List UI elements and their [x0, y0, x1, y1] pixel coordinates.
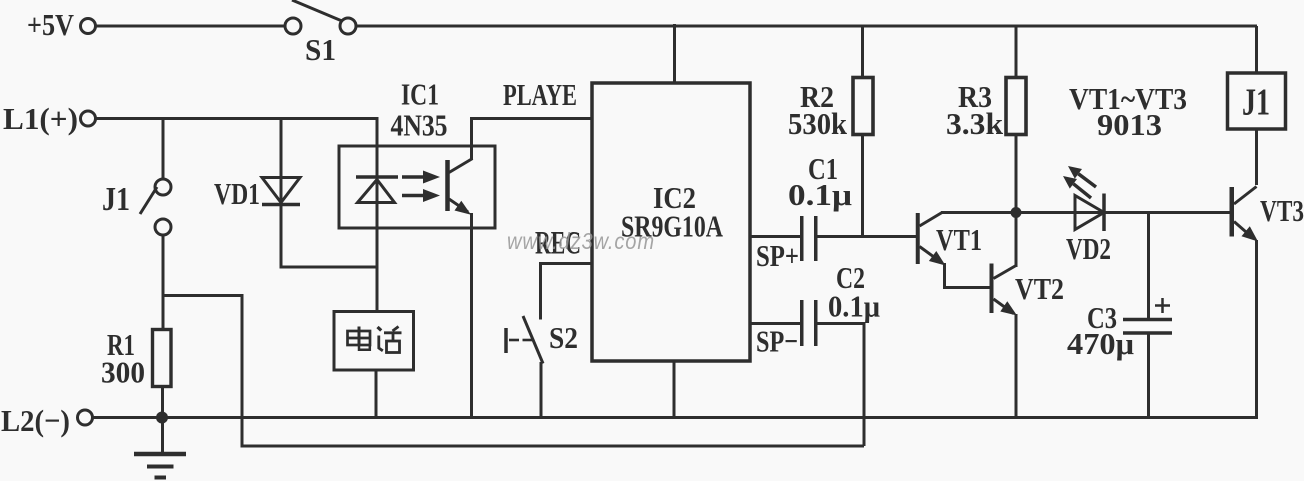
svg-text:S1: S1 — [305, 32, 336, 67]
wire rail to R3 — [1015, 26, 1018, 78]
svg-text:IC1: IC1 — [401, 77, 439, 112]
ground — [134, 418, 186, 478]
label dianhua (phone) — [348, 327, 402, 353]
svg-text:J1: J1 — [102, 181, 130, 218]
relay contact J1 — [140, 179, 171, 235]
wire node to C3 — [1147, 213, 1150, 320]
wire C3 to rail — [1147, 333, 1150, 418]
wire J1 to R1 — [162, 235, 165, 329]
svg-text:4N35: 4N35 — [391, 108, 448, 143]
wire R3 to node — [1015, 135, 1018, 213]
capacitor C2 — [802, 300, 816, 346]
svg-text:PLAYE: PLAYE — [503, 77, 577, 112]
wire L1 line — [96, 117, 379, 120]
wire VT3 emitter to rail — [1255, 240, 1258, 418]
box phone (dianhua) — [334, 312, 414, 371]
wire R1 to rail — [161, 386, 164, 418]
svg-text:VT1: VT1 — [936, 222, 982, 257]
svg-text:530k: 530k — [788, 106, 848, 141]
svg-text:J1: J1 — [1242, 82, 1270, 124]
wire IC2 Vcc pin — [673, 24, 676, 83]
wire return rail — [163, 296, 864, 447]
wire VD1 to phone branch — [281, 266, 376, 269]
svg-text:470μ: 470μ — [1067, 326, 1134, 361]
wire rail to J1 coil — [1255, 26, 1258, 73]
wire +5V to S1 — [96, 25, 286, 28]
wire J1 coil to VT3 collector — [1255, 129, 1258, 185]
svg-text:VT2: VT2 — [1015, 271, 1064, 306]
svg-text:SP−: SP− — [756, 324, 798, 359]
wire IC1 emitter to ground rail — [470, 213, 473, 418]
transistor VT2 — [992, 264, 1018, 316]
terminal +5V — [81, 19, 96, 34]
wire rail to R2 — [861, 26, 864, 78]
IC2 box — [592, 83, 750, 361]
svg-text:9013: 9013 — [1097, 107, 1162, 142]
wire VT1 collector to node — [941, 211, 1230, 214]
capacitor C3 — [1123, 298, 1172, 333]
transistor VT3 — [1232, 187, 1258, 242]
wire SP- — [750, 322, 800, 325]
terminal L2(-) — [78, 410, 93, 425]
wire VT2 emitter to rail — [1015, 314, 1018, 418]
wire S2 to ground rail — [540, 362, 543, 418]
switch S2 — [506, 316, 543, 364]
wire VT1 emitter to VT2 base — [945, 263, 990, 288]
svg-text:0.1μ: 0.1μ — [788, 177, 852, 212]
LED VD2 — [1063, 166, 1104, 231]
resistor R1 — [153, 330, 172, 387]
terminal L1(+) — [81, 111, 96, 126]
svg-text:+5V: +5V — [27, 7, 75, 42]
wire L1 to IC1 LED — [376, 117, 379, 313]
svg-text:L2(−): L2(−) — [1, 403, 70, 438]
svg-text:VT3: VT3 — [1260, 193, 1304, 228]
junction L2/R1 — [156, 412, 168, 424]
IC1 phototransistor — [448, 159, 473, 215]
diode VD1 — [262, 178, 300, 205]
wire C1 to VT1 base — [818, 235, 917, 238]
wire L1 to J1 contact — [162, 119, 165, 180]
svg-text:3.3k: 3.3k — [946, 106, 1004, 141]
switch S1 — [285, 0, 356, 34]
optocoupler IC1 box — [339, 146, 495, 228]
wire L2 rail — [93, 416, 1259, 419]
capacitor C1 — [802, 216, 816, 261]
svg-text:www.dz3w.com: www.dz3w.com — [507, 228, 655, 254]
wire L1 to VD1 — [280, 119, 283, 269]
svg-text:L1(+): L1(+) — [3, 101, 78, 136]
wire C2 to return rail — [818, 324, 865, 447]
IC1 internal LED — [356, 177, 398, 203]
wire R2 to SP+ node — [861, 135, 864, 239]
transistor VT1 — [918, 213, 946, 266]
svg-text:300: 300 — [101, 355, 145, 390]
svg-text:SP+: SP+ — [756, 238, 799, 273]
svg-text:VD2: VD2 — [1066, 231, 1111, 266]
svg-text:0.1μ: 0.1μ — [828, 289, 880, 324]
wire phone box to ground rail — [375, 370, 378, 418]
resistor R3 — [1006, 78, 1026, 135]
svg-text:S2: S2 — [549, 320, 578, 355]
wire VT2 collector to node — [1015, 213, 1018, 268]
junction node R3/VT1/VT2 — [1011, 207, 1022, 218]
wire IC1 collector to PLAYE — [470, 119, 473, 161]
wire SP+ — [750, 235, 800, 238]
wire IC2 ground pin — [673, 361, 676, 418]
wire REC — [541, 264, 593, 320]
svg-text:VD1: VD1 — [214, 176, 260, 211]
wire PLAYE — [470, 117, 592, 120]
relay coil J1 box — [1228, 73, 1286, 129]
resistor R2 — [853, 78, 873, 135]
IC1 coupling arrows — [402, 171, 440, 203]
wire top rail — [356, 25, 1257, 28]
